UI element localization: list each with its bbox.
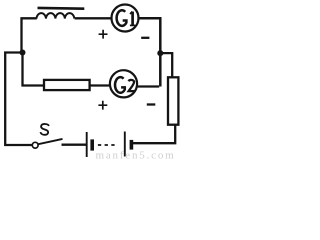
switch S blade: [38, 139, 62, 144]
switch S label: [40, 124, 49, 135]
inductor L1 iron core bar: [38, 7, 85, 10]
label: G2 minus terminal: [147, 103, 156, 105]
battery cell 1 long plate: [86, 132, 88, 157]
wire: switch to battery: [62, 144, 87, 146]
galvanometer G1 circle: [112, 5, 139, 32]
inductor L1 coil: [37, 13, 75, 18]
galvanometer G2 circle: [110, 70, 137, 97]
battery cell 2 long plate: [124, 132, 126, 157]
wire: left junction stub to left rail, down left side: [5, 53, 32, 146]
wire: dashed link between battery cells: [98, 144, 115, 146]
wire: right junction to right resistor branch: [160, 53, 172, 77]
wire: G1 to top-right corner, down to right junction: [139, 18, 161, 86]
wire: G2 to right rail: [137, 85, 159, 87]
battery cell 1 short thick plate: [90, 139, 94, 150]
resistor R2 (right vertical): [168, 77, 178, 124]
switch S pivot circle: [32, 142, 38, 148]
label: G1 plus terminal: [99, 30, 108, 39]
wire: right resistor to bottom rail: [133, 125, 175, 144]
battery cell 2 short thick plate: [130, 140, 134, 150]
wire: top-left corner segment (left branch up to inductor): [22, 18, 37, 52]
wire: left junction down to middle branch: [23, 53, 44, 86]
node: left junction dot: [20, 50, 26, 56]
label: G1 minus terminal: [141, 37, 149, 39]
wire: resistor R1 to G2: [90, 84, 109, 86]
resistor R1 (middle horizontal): [44, 80, 90, 90]
label: G2 plus terminal: [98, 101, 107, 110]
svg-text:manfen5.com: manfen5.com: [96, 150, 176, 160]
node: right junction dot: [157, 50, 163, 56]
galvanometer G1 label: [117, 10, 136, 26]
galvanometer G2 label: [115, 77, 135, 93]
wire: inductor to G1: [75, 17, 111, 19]
